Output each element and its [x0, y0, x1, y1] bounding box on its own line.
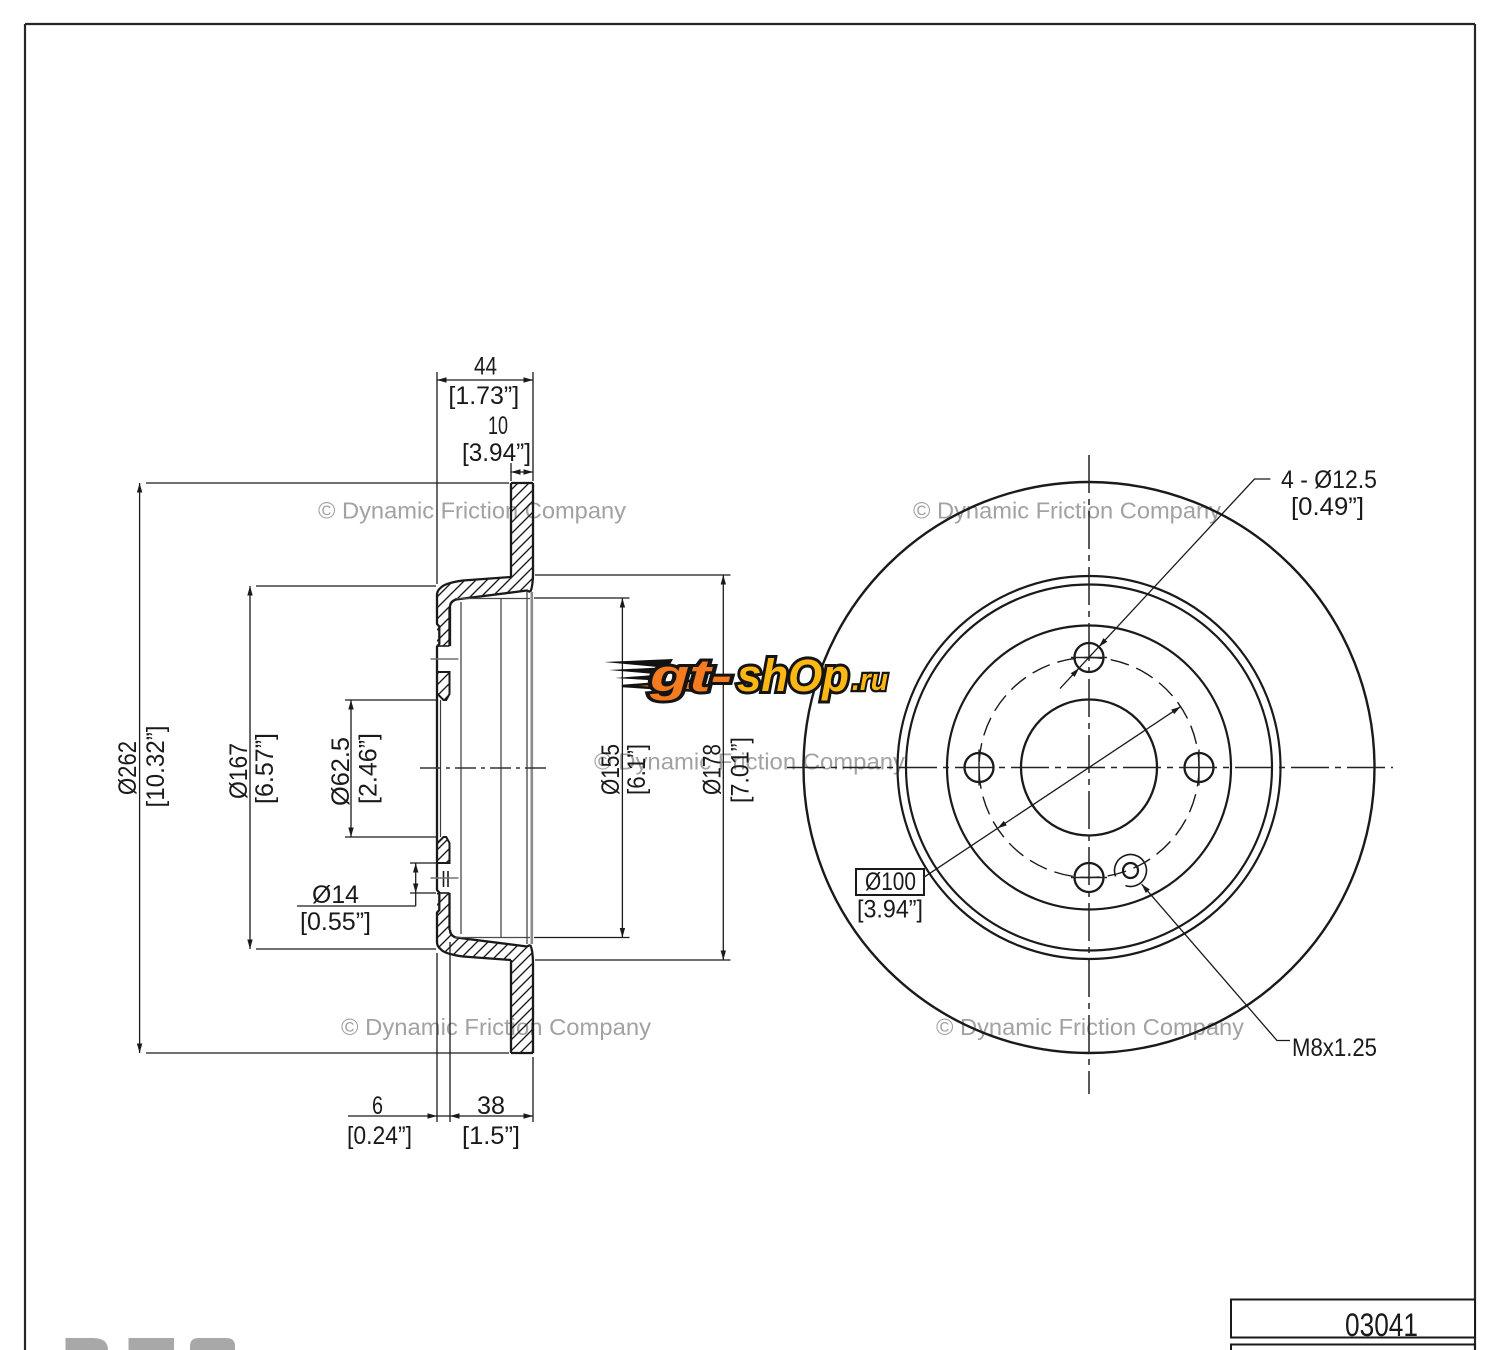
gt-shop.ru logo orange streak — [622, 680, 700, 691]
svg-text:4 - Ø12.5: 4 - Ø12.5 — [1281, 466, 1377, 494]
svg-text:Ø178: Ø178 — [699, 744, 727, 795]
dim line diam262 — [139, 483, 141, 1053]
bolt hole north — [1075, 643, 1104, 672]
arrow 44 right — [524, 377, 534, 382]
pocket corner lower — [530, 945, 533, 962]
plate inner edge — [500, 599, 502, 939]
extension line 38 dim left — [449, 942, 451, 1122]
arrow diam155 bottom — [620, 928, 625, 938]
arrow diam100 upper-right — [1171, 707, 1180, 715]
gt-shop.ru logo speed lines — [604, 659, 673, 681]
arrow M8 leader — [1142, 884, 1150, 893]
svg-text:[1.5”]: [1.5”] — [462, 1122, 520, 1150]
gt-shop.ru logo text gt- — [649, 650, 888, 701]
hatch fill lower half (hat wall + hat plate + disc ring) — [437, 893, 533, 1053]
svg-text:shOp: shOp — [737, 650, 849, 701]
dim line diam100 diagonal — [924, 707, 1181, 878]
centerline left view — [420, 767, 551, 769]
arrow 38 right — [524, 1113, 534, 1118]
svg-text:[7.01”]: [7.01”] — [727, 737, 755, 803]
pocket corner upper (disc to hat plate) — [530, 575, 533, 592]
extension line diam62.5 top — [345, 699, 436, 701]
extension line diam262 top — [146, 482, 509, 484]
arrow diam262 bottom — [137, 1044, 142, 1054]
extension line diam155 bottom — [534, 937, 630, 939]
hatch fill upper half (disc ring + hat plate + hat wall) — [437, 483, 533, 646]
leader 4-diam12.5 — [1060, 479, 1270, 689]
pocket edge — [526, 592, 528, 944]
frame left edge — [24, 24, 26, 1350]
part number box — [1231, 1300, 1475, 1338]
logos — [66, 650, 889, 1350]
svg-text:[1.73”]: [1.73”] — [448, 382, 519, 410]
svg-text:gt-: gt- — [649, 650, 732, 701]
arrow diam178 bottom — [721, 951, 726, 961]
extension line 38 dim right — [532, 1057, 534, 1122]
hat plate bottom surface upper — [450, 591, 530, 647]
west hole tick — [978, 750, 980, 786]
disc bottom edge — [511, 1052, 533, 1054]
bolt hole south — [1075, 863, 1104, 892]
M8 hole lower edge lines — [438, 862, 450, 864]
arrow diam100 lower-left — [997, 821, 1006, 829]
arrow diam62.5 bottom — [348, 828, 353, 838]
svg-text:[0.49”]: [0.49”] — [1291, 493, 1364, 521]
outer circle diam262 — [804, 482, 1375, 1053]
hat wall inner face below hole — [448, 893, 450, 930]
dim line 6 with outside tail — [348, 1115, 450, 1117]
hat plate bottom surface lower — [450, 930, 530, 947]
svg-text:[0.24”]: [0.24”] — [347, 1122, 412, 1150]
hatched wall segment between bore and M8 hole (with chamfers) — [437, 837, 450, 863]
svg-text:Ø14: Ø14 — [312, 881, 359, 909]
disc left face upper — [510, 483, 512, 577]
arrow diam167 top — [247, 586, 252, 596]
bolt hole centerline tick lower — [431, 877, 459, 879]
title block — [1231, 1300, 1475, 1350]
extension line diam178 top — [535, 574, 731, 576]
hatched wall segment between bolt hole and bore (with chamfers) — [437, 672, 450, 700]
svg-text:[0.55”]: [0.55”] — [300, 908, 371, 936]
dim line diam155 — [621, 598, 623, 938]
disc right face lower — [532, 962, 534, 1053]
M8 thread lines — [443, 871, 445, 887]
extension line 6 dim left — [436, 953, 438, 1122]
left section view — [420, 483, 551, 1053]
vertical centerline — [1088, 455, 1090, 1094]
extension line diam14 bottom — [410, 892, 436, 894]
east hole tick — [1198, 750, 1200, 786]
arrow diam262 top — [137, 483, 142, 493]
hat plate top surface upper — [437, 577, 511, 595]
dim line 38 — [450, 1115, 533, 1117]
extension line diam155 top — [534, 597, 630, 599]
hat plate top surface lower — [437, 942, 511, 960]
pocket floor silhouette lines — [455, 599, 530, 938]
svg-text:[2.46”]: [2.46”] — [355, 733, 383, 804]
frame right edge — [1474, 24, 1476, 1350]
bolt hole upper edge lines — [438, 645, 450, 647]
leader M8 — [1142, 884, 1290, 1040]
svg-text:© Dynamic Friction Company: © Dynamic Friction Company — [341, 1014, 651, 1040]
dim line 10 — [511, 471, 533, 473]
bolt hole west — [965, 753, 994, 782]
svg-text:Ø155: Ø155 — [597, 744, 625, 795]
DFC logo letter D — [66, 1338, 109, 1350]
section outline upper: disc ring and hat profile — [437, 483, 533, 1053]
svg-text:Ø100: Ø100 — [865, 868, 916, 896]
hat outer face full (through bore silhouette) — [437, 595, 439, 942]
disc inner edge circle diam178 — [898, 576, 1281, 959]
hat step circle — [947, 626, 1231, 910]
bolt circle diam100 dashed — [979, 658, 1199, 878]
extension line diam167 bottom — [256, 948, 436, 950]
arrow diam155 top — [620, 598, 625, 608]
disc top edge — [511, 482, 533, 484]
svg-text:Ø262: Ø262 — [114, 741, 142, 795]
center bore circle diam62.5 — [1021, 700, 1157, 836]
svg-text:10: 10 — [488, 412, 508, 440]
south hole tick — [1071, 877, 1107, 879]
svg-text:© Dynamic Friction Company: © Dynamic Friction Company — [318, 498, 626, 524]
DFC logo letter C — [190, 1338, 235, 1350]
svg-text:[6.57”]: [6.57”] — [251, 733, 279, 804]
arrow diam14 top — [413, 863, 418, 873]
leader diam14 — [297, 905, 416, 907]
svg-text:03041: 03041 — [1345, 1307, 1418, 1343]
bolt hole east — [1185, 753, 1214, 782]
arrow at top bolt hole lower-left — [1071, 668, 1079, 677]
north hole tick — [1071, 657, 1107, 659]
hat outer circle diam167 — [906, 585, 1272, 951]
arrow diam178 top — [721, 575, 726, 585]
bore chamfer edge line — [440, 700, 442, 837]
extension line diam262 bottom — [146, 1052, 509, 1054]
svg-text:[10.32”]: [10.32”] — [142, 726, 170, 808]
extension line diam167 top — [256, 585, 436, 587]
watermarks — [318, 498, 1244, 1041]
disc right face upper — [532, 483, 534, 575]
internal thin edges seen through pocket/bore — [441, 592, 528, 944]
arrow diam167 bottom — [247, 940, 252, 950]
arrow 38 left — [450, 1113, 460, 1118]
svg-text:[3.94”]: [3.94”] — [462, 439, 531, 467]
arrow diam14 bottom — [413, 884, 418, 894]
arrow 44 left — [437, 377, 447, 382]
extension line diam178 bottom — [535, 959, 731, 961]
DFC logo letter F — [129, 1338, 175, 1350]
arrow 6 dim — [428, 1113, 438, 1118]
diam100 box — [856, 869, 924, 895]
M8 hole inner circle — [1123, 863, 1138, 878]
dim line 44 — [437, 379, 533, 381]
extension line diam14 top — [410, 862, 436, 864]
left view dimensions — [114, 353, 755, 1151]
svg-text:Ø62.5: Ø62.5 — [327, 737, 355, 806]
disc left face lower — [510, 960, 512, 1053]
extension line disc left top — [510, 463, 512, 481]
second box top edge — [1231, 1345, 1475, 1350]
inner hub edge — [460, 602, 462, 934]
svg-text:M8x1.25: M8x1.25 — [1292, 1034, 1377, 1062]
svg-text:44: 44 — [474, 353, 497, 381]
svg-text:38: 38 — [477, 1092, 505, 1120]
dim line diam167 — [249, 586, 251, 949]
svg-text:Ø167: Ø167 — [225, 743, 253, 799]
frame top edge — [25, 23, 1475, 25]
extension line hat face top — [436, 372, 438, 584]
M8 thread outer arc — [1110, 850, 1151, 891]
extension line disc right top — [532, 372, 534, 481]
svg-text:© Dynamic Friction Company: © Dynamic Friction Company — [913, 498, 1221, 524]
svg-text:6: 6 — [372, 1092, 383, 1120]
svg-text:.ru: .ru — [852, 662, 888, 697]
dim line diam178 — [722, 575, 724, 960]
arrow at top bolt hole upper-right — [1099, 638, 1107, 647]
dim line diam62.5 — [350, 700, 352, 837]
svg-text:© Dynamic Friction Company: © Dynamic Friction Company — [936, 1014, 1244, 1040]
arrow 10 left — [511, 469, 521, 474]
hat wall inner face above hole — [448, 607, 450, 646]
svg-text:[3.94”]: [3.94”] — [857, 896, 923, 924]
arrow diam62.5 top — [348, 700, 353, 710]
disc inner face grey line — [530, 592, 533, 944]
bolt hole edges in hat wall (section) — [438, 646, 450, 893]
svg-text:[6.1”]: [6.1”] — [623, 744, 651, 795]
right front view — [787, 455, 1393, 1094]
right view annotations — [856, 466, 1377, 1062]
extension line diam62.5 bottom — [345, 836, 436, 838]
arrow 10 right — [524, 469, 534, 474]
dim line diam14 — [415, 863, 417, 906]
bolt hole centerline tick upper — [431, 658, 459, 660]
horizontal centerline — [787, 767, 1393, 769]
